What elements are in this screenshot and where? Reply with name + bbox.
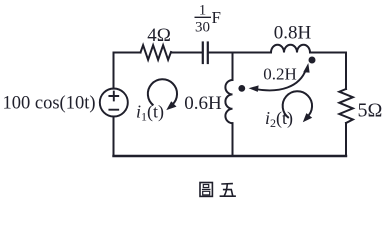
svg-text:5Ω: 5Ω xyxy=(358,99,383,121)
svg-text:30: 30 xyxy=(195,20,210,36)
svg-text:100 cos(10t): 100 cos(10t) xyxy=(3,94,96,114)
svg-text:1: 1 xyxy=(199,3,207,19)
wire resistor-to-capacitor xyxy=(171,52,202,54)
svg-text:i2(t): i2(t) xyxy=(265,108,293,130)
wire bottom xyxy=(114,155,347,157)
svg-text:4Ω: 4Ω xyxy=(147,25,171,46)
wire right vertical lower xyxy=(345,123,347,156)
wire source bottom lead xyxy=(113,117,115,157)
mutual inductance 0.2H coupling arrow xyxy=(249,63,310,92)
wire left vertical (source top lead) xyxy=(113,53,115,89)
wire top-left horizontal xyxy=(114,52,141,54)
svg-text:0.2H: 0.2H xyxy=(263,65,297,84)
wire capacitor-to-inductor (through middle junction) xyxy=(209,52,272,54)
caption glyph 圖 xyxy=(200,183,212,197)
capacitor 1/30 F xyxy=(203,43,208,64)
mesh current arrow i2 xyxy=(283,91,313,122)
resistor 5Ω xyxy=(339,89,353,123)
svg-text:i1(t): i1(t) xyxy=(136,102,164,124)
wire middle vertical upper xyxy=(232,53,234,81)
resistor 4Ω xyxy=(141,45,172,60)
wire middle vertical lower xyxy=(232,123,234,156)
caption glyph 五 xyxy=(220,184,236,197)
dot of inductor 0.6H xyxy=(238,85,245,92)
wire inductor-to-right-corner xyxy=(310,52,346,54)
caption 圖五 (figure 5) drawn strokes xyxy=(200,183,236,197)
inductor 0.6H xyxy=(225,80,232,123)
svg-text:F: F xyxy=(212,8,221,27)
label 1/30 F xyxy=(195,3,221,36)
voltage source 100cos(10t) xyxy=(100,89,128,117)
wire right vertical upper xyxy=(345,53,347,90)
inductor 0.8H xyxy=(271,45,310,53)
dot of inductor 0.8H xyxy=(309,57,316,64)
svg-text:0.6H: 0.6H xyxy=(184,93,222,114)
svg-text:0.8H: 0.8H xyxy=(274,23,312,44)
mesh current arrow i1 xyxy=(148,79,177,110)
